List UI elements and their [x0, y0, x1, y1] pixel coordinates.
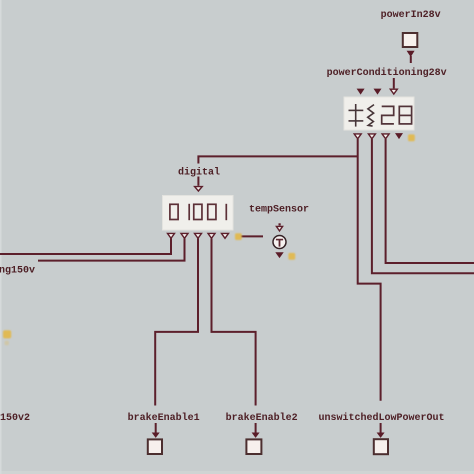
svg-text:ng150v: ng150v	[0, 265, 35, 276]
wire digital pin5 to tempSensor	[237, 235, 264, 237]
pin digital bottom pin4 (hollow)	[208, 233, 215, 238]
svg-text:powerIn28v: powerIn28v	[381, 10, 441, 21]
wire stem brakeEnable2	[255, 423, 257, 433]
pin digital bottom pin3 (hollow)	[195, 233, 202, 238]
arrow brakeEnable1	[152, 433, 160, 438]
arrow unswitchedLowPowerOut	[377, 433, 385, 438]
wire powerIn down to net label	[410, 56, 412, 63]
wire stem unswitchedLowPowerOut	[380, 423, 382, 433]
pin powerConditioning bottom pin4 (filled)	[395, 133, 403, 139]
pin digital top (hollow)	[195, 187, 203, 191]
bottom lighter strip	[0, 471, 474, 474]
marker faint dot left edge	[5, 341, 10, 346]
component powerConditioning box	[344, 97, 414, 130]
marker yellow dot near digital pin5	[235, 233, 242, 240]
left edge highlight	[0, 0, 2, 474]
marker yellow dot at powerConditioning	[408, 134, 415, 141]
pin digital bottom pin2 (hollow)	[181, 233, 188, 238]
seven-seg digit 2	[382, 106, 394, 124]
svg-text:unswitchedLowPowerOut: unswitchedLowPowerOut	[319, 412, 445, 424]
tempSensor body circle T	[273, 236, 286, 249]
I/O box unswitchedLowPowerOut	[374, 439, 388, 454]
svg-text:tempSensor: tempSensor	[249, 204, 309, 215]
wire digital pin3 to brakeEnable1	[155, 239, 198, 406]
arrow brakeEnable2	[252, 433, 260, 438]
wire digital label to pin	[197, 177, 199, 186]
seven-seg 0 digit1	[170, 204, 178, 219]
wire powerConditioning pin1 down to unswitchedLowPowerOut	[358, 139, 381, 401]
svg-text:powerConditioning28v: powerConditioning28v	[327, 67, 447, 79]
pin powerConditioning bottom pin1 (hollow)	[354, 134, 361, 139]
seven-seg 1 digit2	[188, 204, 190, 220]
marker yellow dot at tempSensor	[288, 253, 295, 260]
I/O box brakeEnable2	[246, 439, 261, 454]
component digital box	[163, 196, 234, 231]
zigzag symbol	[368, 105, 374, 127]
wire digital pin2 to net stub left	[38, 238, 185, 260]
svg-text:digital: digital	[178, 166, 220, 178]
pin digital bottom pin1 (hollow)	[168, 233, 175, 238]
wire powerConditioning pin3 down-right to edge	[386, 139, 474, 263]
wire net label to pin	[393, 78, 395, 88]
marker yellow dot left edge	[3, 330, 11, 338]
battery symbol	[349, 104, 364, 127]
seven-seg 0 digit4	[208, 204, 216, 219]
pin digital bottom pin5 (hollow)	[222, 233, 229, 238]
I/O box powerIn28v	[403, 33, 418, 47]
svg-text:150v2: 150v2	[0, 413, 30, 424]
svg-text:brakeEnable2: brakeEnable2	[226, 412, 298, 424]
seven-seg digit 8	[399, 106, 411, 124]
svg-text:brakeEnable1: brakeEnable1	[128, 412, 200, 424]
pin powerConditioning top pin1 (filled)	[357, 89, 365, 95]
tempSensor input pin dot	[279, 223, 281, 225]
wire digital pin4 to brakeEnable2	[212, 239, 256, 406]
wire powerConditioning pin2 down-right to edge	[372, 139, 474, 273]
wire digital pin1 to left edge	[0, 238, 171, 254]
pin powerConditioning top pin3 (hollow)	[390, 89, 397, 94]
wire branch to digital	[198, 156, 357, 163]
seven-seg 0 digit3	[194, 204, 202, 219]
seven-seg 1 digit5	[225, 204, 227, 220]
pin powerConditioning bottom pin3 (hollow)	[382, 134, 389, 139]
tempSensor input pin (hollow triangle)	[276, 226, 282, 231]
wire stem brakeEnable1	[155, 423, 157, 433]
pin powerConditioning bottom pin2 (hollow)	[368, 134, 375, 139]
tempSensor output arrow (filled)	[275, 252, 283, 258]
arrow powerIn28v (output arrowhead)	[407, 51, 415, 57]
pin powerConditioning top pin2 (filled)	[374, 89, 382, 95]
I/O box brakeEnable1	[148, 439, 162, 454]
